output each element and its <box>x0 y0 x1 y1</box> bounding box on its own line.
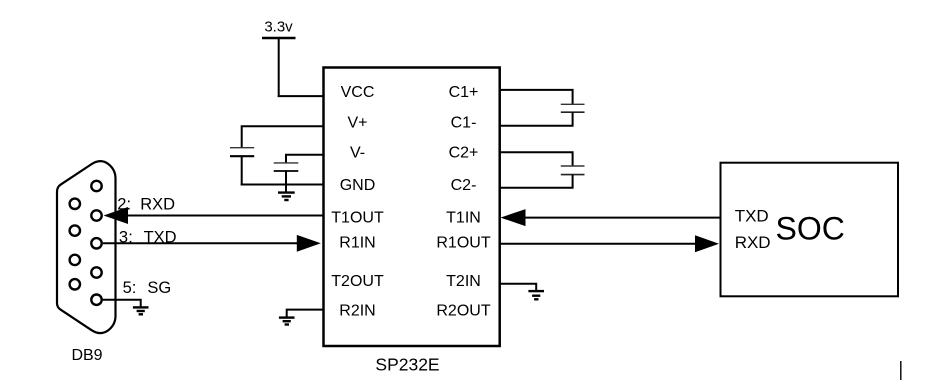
DB9 pin 5 <box>91 295 101 305</box>
wire C4 bottom through GND rail <box>285 171 287 192</box>
svg-text:C2+: C2+ <box>449 144 479 161</box>
svg-text:5: 5 <box>123 279 132 297</box>
capacitor C2 plates <box>561 166 585 175</box>
svg-text:T1IN: T1IN <box>446 210 481 227</box>
DB9 pin 8 <box>70 255 80 265</box>
capacitor C1 plates <box>561 104 585 112</box>
svg-text:3.3v: 3.3v <box>264 19 293 36</box>
svg-text:T1OUT: T1OUT <box>331 210 384 227</box>
svg-text:RXD: RXD <box>140 195 175 213</box>
DB9 pin 1 <box>91 181 101 191</box>
wire GND rail <box>241 184 324 186</box>
IC U1 SP232E body <box>324 68 500 347</box>
DB9 pin 6 <box>70 199 80 209</box>
svg-text:V+: V+ <box>347 114 367 131</box>
svg-text:R2IN: R2IN <box>339 303 375 320</box>
wire C3 bottom to GND rail <box>241 156 243 185</box>
wire C1+ <box>499 90 573 104</box>
text cursor artifact bottom-right <box>900 361 902 380</box>
svg-text:C1-: C1- <box>451 114 477 131</box>
node label 5: SG <box>123 279 172 297</box>
SOC block U2 <box>721 163 899 297</box>
svg-text:GND: GND <box>340 177 376 194</box>
svg-text::: : <box>132 279 137 297</box>
wire T1IN from SOC TXD <box>519 217 721 219</box>
wire C2+ <box>499 152 573 166</box>
svg-text:R1IN: R1IN <box>339 234 375 251</box>
ground for R2IN <box>279 318 295 325</box>
svg-text:RXD: RXD <box>735 233 771 252</box>
svg-text:T2IN: T2IN <box>446 273 481 290</box>
svg-text:SP232E: SP232E <box>375 354 439 374</box>
arrow into R1IN <box>297 235 321 252</box>
svg-text:R2OUT: R2OUT <box>436 303 490 320</box>
wire VCC vertical from 3.3v <box>278 38 280 97</box>
capacitor C3 plates <box>230 148 254 157</box>
DB9 pin 9 <box>70 279 80 289</box>
wire RXD from T1OUT to DB9 pin2 <box>122 215 323 217</box>
svg-text:T2OUT: T2OUT <box>331 273 384 290</box>
svg-text:C1+: C1+ <box>449 84 479 101</box>
wire C1- <box>499 112 573 126</box>
wire V+ <box>242 126 324 147</box>
ground for T2IN <box>528 291 544 299</box>
wire SG from DB9 pin5 <box>103 300 141 308</box>
power rail bar 3.3v <box>262 37 296 40</box>
svg-text:DB9: DB9 <box>71 347 102 364</box>
DB9 pin 4 <box>91 267 101 277</box>
svg-text:V-: V- <box>350 144 365 161</box>
svg-text:C2-: C2- <box>451 177 477 194</box>
wire R1OUT to SOC RXD <box>499 243 701 245</box>
ground for V- net <box>278 193 295 200</box>
DB9 connector J1 outline <box>57 161 116 333</box>
wire V- <box>286 155 324 163</box>
ground for SG <box>133 307 149 314</box>
svg-text:SOC: SOC <box>776 210 845 246</box>
svg-text:VCC: VCC <box>341 84 375 101</box>
wire C2- <box>499 175 573 188</box>
capacitor C4 plates <box>274 163 299 171</box>
node label 2: RXD <box>117 195 175 213</box>
node label 3: TXD <box>119 228 177 246</box>
svg-text:R1OUT: R1OUT <box>436 234 490 251</box>
arrow into DB9 pin2 <box>104 207 129 224</box>
svg-text:SG: SG <box>147 279 171 297</box>
DB9 pin 2 <box>91 210 101 220</box>
wire R2IN to ground <box>287 310 323 318</box>
arrow into SOC RXD <box>695 235 719 252</box>
arrow into T1IN <box>501 209 526 226</box>
wire TXD from DB9 pin3 to R1IN <box>103 242 303 244</box>
DB9 pin 7 <box>70 225 80 235</box>
DB9 pin 3 <box>91 238 101 248</box>
wire VCC horizontal to pin VCC <box>278 95 324 97</box>
wire T2IN to ground <box>499 284 536 291</box>
svg-text:TXD: TXD <box>735 207 769 226</box>
